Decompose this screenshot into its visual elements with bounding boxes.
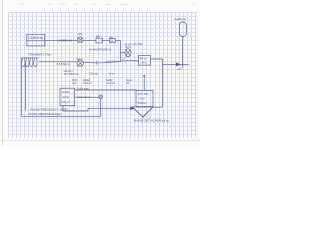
svg-text:1 W o: 1 W o <box>140 60 147 64</box>
svg-text:ant x: ant x <box>177 67 183 71</box>
svg-text:4x MULTIPLIER xtl: 4x MULTIPLIER xtl <box>89 48 111 52</box>
svg-text:PHASE DET HC4046 pll ck: PHASE DET HC4046 pll ck <box>134 119 170 123</box>
svg-text:loop mix vc: loop mix vc <box>78 95 92 99</box>
svg-text:chain 2: chain 2 <box>83 81 92 85</box>
svg-text:F/N pll: F/N pll <box>62 100 70 104</box>
svg-text:filt: filt <box>127 81 130 85</box>
svg-text:Helical an: Helical an <box>174 17 186 21</box>
svg-text:cap: cap <box>72 82 77 85</box>
svg-text:VCF 704: VCF 704 <box>138 92 149 96</box>
svg-text:2N3866 x2: 2N3866 x2 <box>58 39 72 43</box>
svg-text:amp 2x: amp 2x <box>107 81 116 85</box>
svg-text:10 kHz: 10 kHz <box>62 90 71 94</box>
svg-text:ref div: ref div <box>62 95 70 99</box>
svg-text:5ARCA: 5ARCA <box>138 101 147 105</box>
svg-text:2.2k adj: 2.2k adj <box>89 72 98 76</box>
svg-text:1296 MHz: 1296 MHz <box>106 59 119 63</box>
svg-text:BPF: BPF <box>96 34 101 38</box>
svg-text:POOR PRECISION adjet: POOR PRECISION adjet <box>29 112 62 116</box>
svg-text:TRIMMER 7.3 Mz: TRIMMER 7.3 Mz <box>29 53 52 57</box>
svg-text:PHASE FREQUENCY DETR: PHASE FREQUENCY DETR <box>30 107 69 111</box>
svg-text:3.5 MHz lc: 3.5 MHz lc <box>57 62 71 66</box>
svg-text:lo in: lo in <box>109 72 114 76</box>
svg-text:filt2: filt2 <box>110 35 114 39</box>
svg-text:1.4 MHz xo: 1.4 MHz xo <box>28 36 44 40</box>
svg-text:LPF: LPF <box>78 32 83 36</box>
svg-text:balun: balun <box>76 57 83 61</box>
svg-text:10.7 MHz if a: 10.7 MHz if a <box>64 72 79 76</box>
svg-text:1 kHz step: 1 kHz step <box>77 86 90 90</box>
svg-text:Ax b: Ax b <box>140 96 146 100</box>
svg-text:45.5 x: 45.5 x <box>125 46 132 49</box>
